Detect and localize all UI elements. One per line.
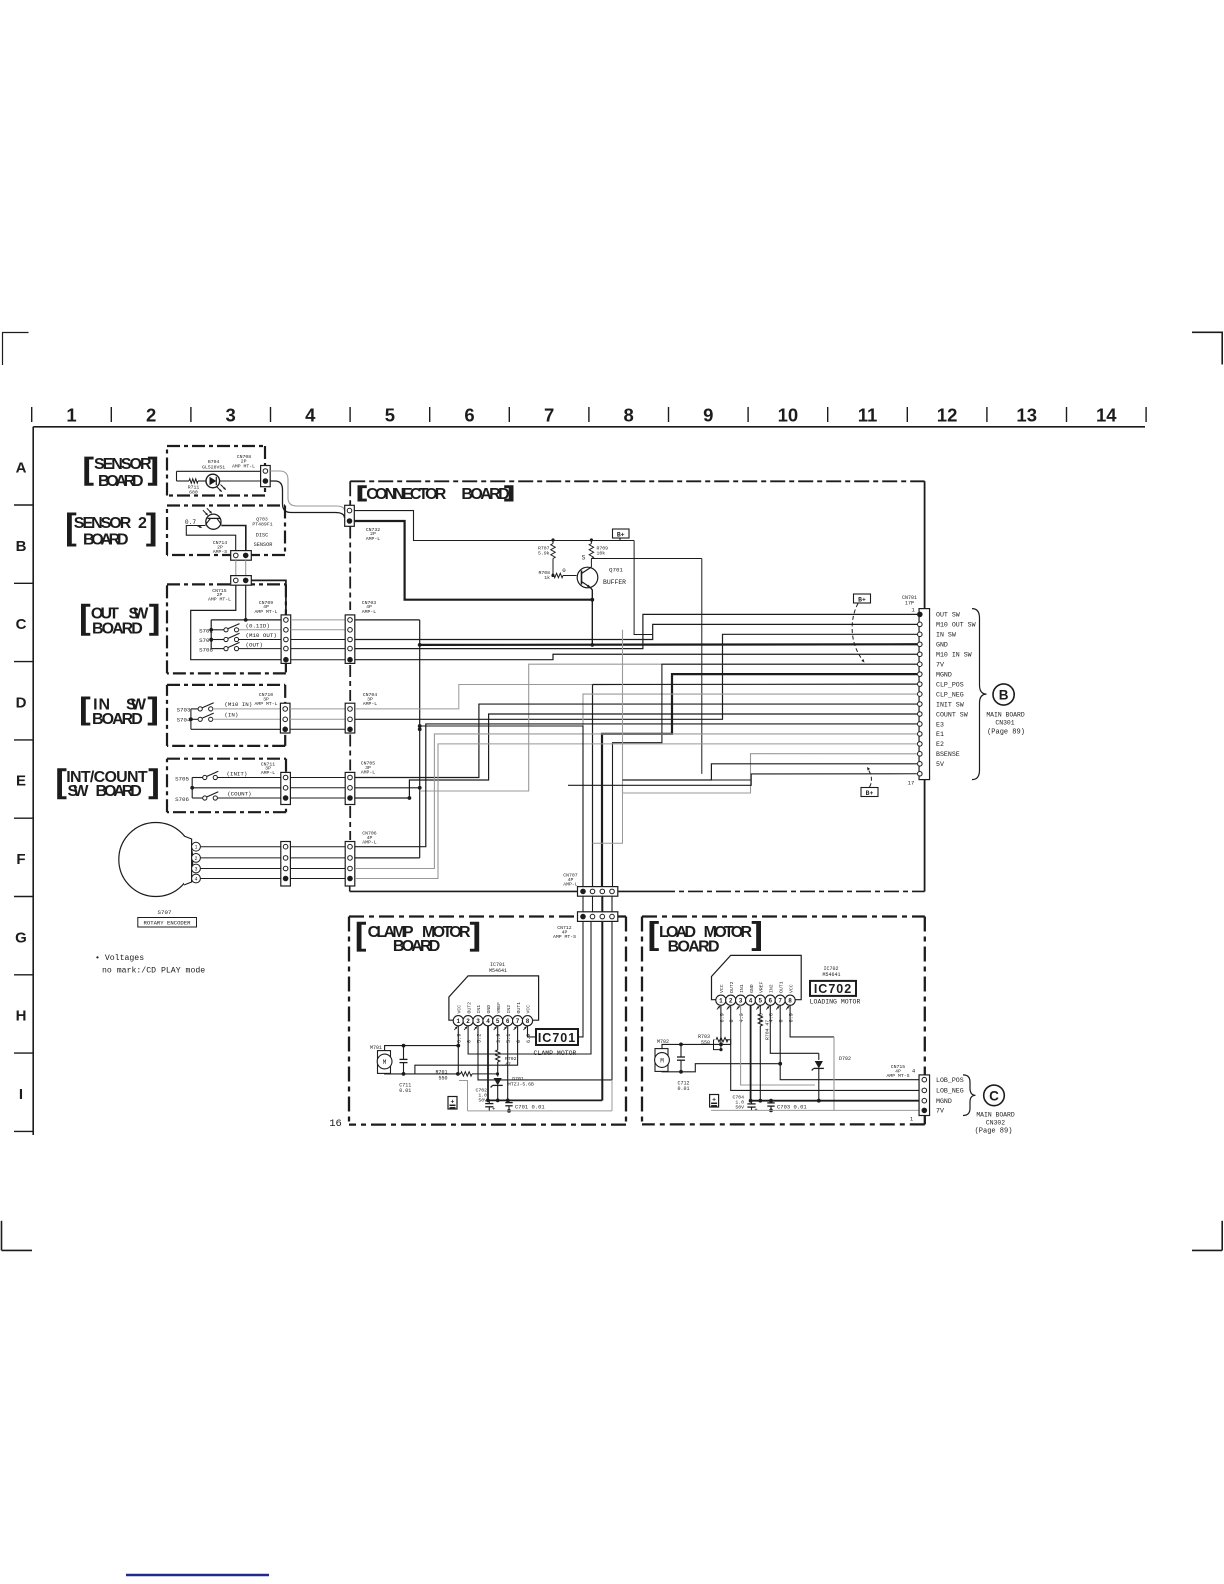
svg-text:6.9: 6.9 <box>789 1013 795 1022</box>
svg-text:2: 2 <box>729 998 733 1005</box>
svg-text:OUT SW: OUT SW <box>936 612 960 619</box>
svg-text:M: M <box>383 1059 387 1066</box>
svg-text:LOB_POS: LOB_POS <box>936 1077 964 1084</box>
svg-text:B+: B+ <box>617 531 625 538</box>
svg-text:5.2: 5.2 <box>476 1034 482 1043</box>
svg-text:C701 0.01: C701 0.01 <box>515 1103 545 1110</box>
svg-text:CLAMP MOTOR: CLAMP MOTOR <box>534 1050 577 1057</box>
IC702 pin column 8 VCC <box>790 1005 834 1037</box>
svg-text:(Page 89): (Page 89) <box>987 729 1025 737</box>
wires CN709 to CN703 <box>291 619 345 621</box>
board box SENSOR 2 BOARD <box>167 504 285 506</box>
rotary encoder S707 <box>119 823 193 897</box>
svg-text:VREF: VREF <box>496 1002 502 1014</box>
svg-text:5.1: 5.1 <box>506 1034 512 1043</box>
svg-text:IN2: IN2 <box>769 984 775 993</box>
resistor R711 680 <box>189 479 198 483</box>
svg-text:5V: 5V <box>936 761 944 768</box>
svg-text:AMP-L: AMP-L <box>563 881 578 887</box>
svg-text:680: 680 <box>189 489 198 495</box>
svg-text:IN1: IN1 <box>476 1005 482 1014</box>
svg-text:4: 4 <box>912 1068 916 1075</box>
IC702 pin column 6 IN2 <box>770 1005 819 1053</box>
svg-text:R704 47: R704 47 <box>765 1020 771 1040</box>
wire OUT SW to CN701 pin1 <box>355 614 917 648</box>
svg-text:MAIN BOARD: MAIN BOARD <box>976 1112 1015 1119</box>
svg-text:S703: S703 <box>177 706 191 713</box>
svg-text:5: 5 <box>758 998 762 1005</box>
wire M701 bottom rail <box>385 1072 458 1075</box>
svg-text:BOARD: BOARD <box>92 711 143 728</box>
wire M702 bottom rail <box>662 1064 780 1072</box>
svg-text:8: 8 <box>624 405 634 426</box>
svg-text:CN301: CN301 <box>995 720 1014 727</box>
svg-text:OUT1: OUT1 <box>516 1002 522 1014</box>
svg-text:C: C <box>16 616 27 633</box>
wire CN714 to CN715 <box>235 560 237 576</box>
svg-text:(0.1ID): (0.1ID) <box>246 622 270 629</box>
svg-text:D702: D702 <box>839 1056 851 1062</box>
svg-text:I: I <box>19 1086 23 1103</box>
svg-text:(INIT): (INIT) <box>227 771 248 778</box>
wire Q703 emitter loop <box>186 526 235 551</box>
svg-text:GL528VS1: GL528VS1 <box>202 465 225 471</box>
svg-text:LOADING MOTOR: LOADING MOTOR <box>810 999 861 1006</box>
svg-text:+: + <box>754 1106 757 1113</box>
svg-text:1: 1 <box>456 1018 460 1025</box>
svg-text:F: F <box>16 851 25 868</box>
svg-text:M: M <box>660 1058 664 1065</box>
wire Q701 emitter to GND bus <box>590 588 592 645</box>
svg-text:6: 6 <box>768 998 772 1005</box>
IC702 pins 1-8 <box>716 995 726 1005</box>
IC701 pin column 8 VCC <box>528 921 584 1037</box>
wire 7V feed to CN707 <box>613 664 918 886</box>
power symbol B+ (upper right) <box>854 594 871 603</box>
svg-text:SW: SW <box>68 783 90 800</box>
svg-text:GND: GND <box>749 984 755 993</box>
svg-text:550: 550 <box>438 1075 447 1081</box>
brace to main board C <box>963 1075 976 1116</box>
svg-text:AMP-L: AMP-L <box>366 536 381 542</box>
svg-text:IC702: IC702 <box>814 982 852 996</box>
svg-text:S701: S701 <box>199 637 213 644</box>
svg-text:MTZJ-5.6B: MTZJ-5.6B <box>508 1082 534 1088</box>
svg-text:0.01: 0.01 <box>677 1086 689 1092</box>
svg-text:10k: 10k <box>597 551 606 557</box>
wires CN710 to CN704 <box>290 708 345 710</box>
svg-text:B+: B+ <box>866 790 874 797</box>
zener diode D701 MTZJ-5.6B <box>494 1078 502 1085</box>
label SENSOR BOARD <box>84 457 93 486</box>
label CLAMP MOTOR BOARD <box>357 922 366 952</box>
wire OUT1 branch <box>415 1026 518 1074</box>
wire E2 to CN701 pin14 <box>355 744 917 879</box>
svg-text:MGND: MGND <box>936 1098 952 1105</box>
svg-text:B: B <box>999 688 1009 703</box>
clamp ground rail <box>489 1099 602 1101</box>
svg-text:17P: 17P <box>905 600 914 606</box>
capacitor C703 0.01 <box>770 1101 772 1103</box>
svg-text:AMP-L: AMP-L <box>362 609 377 615</box>
svg-text:IN2: IN2 <box>506 1005 512 1014</box>
svg-text:(Page 89): (Page 89) <box>975 1128 1013 1136</box>
wire CLP_NEG to CN701 pin9 <box>583 694 917 886</box>
wire CN712 pin4 column into clamp board <box>611 921 613 1080</box>
svg-text:BOARD: BOARD <box>92 620 143 637</box>
wire E3 to CN701 pin12 <box>355 724 917 847</box>
label INT/COUNT SW BOARD <box>57 768 66 799</box>
footer rule <box>126 1574 269 1577</box>
svg-text:no mark:/CD PLAY mode: no mark:/CD PLAY mode <box>102 966 205 976</box>
svg-text:3: 3 <box>739 998 743 1005</box>
svg-text:AMP MT-L: AMP MT-L <box>254 701 277 707</box>
svg-text:6.9: 6.9 <box>526 1034 532 1043</box>
LED inside B704 <box>206 474 220 488</box>
wire CN732 pin1 to B+ rail <box>354 511 634 541</box>
svg-text:SENSOR: SENSOR <box>254 542 273 548</box>
svg-text:S: S <box>582 555 586 562</box>
IC702 pin column 7 OUT1 <box>780 1005 918 1079</box>
wire M10 OUT SW to CN701 pin2 <box>355 624 917 639</box>
clamp lower rail <box>468 1110 613 1112</box>
svg-text:CONNECTOR: CONNECTOR <box>366 486 446 503</box>
connector encoder board 4P <box>281 842 291 887</box>
board box SENSOR BOARD <box>167 445 265 447</box>
wire CN715 pin1 loop to CN709 pin5 <box>191 585 281 660</box>
svg-text:0.01: 0.01 <box>399 1088 411 1094</box>
svg-text:AMP MT-S: AMP MT-S <box>886 1073 909 1079</box>
svg-text:50V: 50V <box>735 1104 744 1110</box>
svg-text:VCC: VCC <box>526 1005 532 1014</box>
svg-text:COUNT SW: COUNT SW <box>936 711 968 718</box>
svg-text:SENSOR: SENSOR <box>74 515 132 532</box>
svg-text:D: D <box>16 694 27 711</box>
brace to main board B <box>972 609 987 780</box>
svg-text:S702: S702 <box>199 627 213 634</box>
svg-text:CLP_POS: CLP_POS <box>936 681 964 688</box>
svg-text:LOB_NEG: LOB_NEG <box>936 1088 964 1095</box>
IC701 pin column 2 OUT2 <box>468 921 591 1054</box>
wire CN707 pin1 to GND <box>420 726 583 886</box>
svg-text:M10 OUT SW: M10 OUT SW <box>936 622 976 629</box>
wires CN711 to CN705 <box>290 777 345 779</box>
svg-text:IN1: IN1 <box>739 984 745 993</box>
svg-text:1k: 1k <box>544 575 550 581</box>
svg-text:0: 0 <box>467 1040 473 1043</box>
svg-text:IC701: IC701 <box>538 1031 576 1045</box>
svg-text:INIT SW: INIT SW <box>936 701 964 708</box>
wires encoder to connector <box>200 846 281 848</box>
svg-text:10: 10 <box>778 405 799 426</box>
label IN SW BOARD <box>81 697 90 726</box>
svg-text:5.9k: 5.9k <box>538 551 550 557</box>
svg-text:ROTARY ENCODER: ROTARY ENCODER <box>144 920 192 927</box>
svg-text:2: 2 <box>194 856 197 862</box>
svg-text:4: 4 <box>486 1018 490 1025</box>
svg-text:OUT1: OUT1 <box>778 981 784 993</box>
svg-text:BOARD: BOARD <box>83 532 129 549</box>
svg-text:E2: E2 <box>936 741 944 748</box>
IC702 pin column 3 IN1 <box>741 1005 815 1085</box>
svg-text:AMP-S: AMP-S <box>213 549 228 555</box>
wire Q703 collector <box>221 526 246 551</box>
svg-text:BUFFER: BUFFER <box>603 579 626 586</box>
svg-text:VCC: VCC <box>788 984 794 993</box>
svg-text:8: 8 <box>526 1018 530 1025</box>
svg-text:1: 1 <box>194 845 197 851</box>
svg-text:14: 14 <box>1096 405 1117 426</box>
wire 7V to CN701 pin6 <box>420 664 917 791</box>
capacitor C701 0.01 <box>508 1100 510 1102</box>
svg-text:(OUT): (OUT) <box>246 641 263 648</box>
capacitor C712 0.01 <box>680 1044 682 1057</box>
wire M702 top rail <box>662 1044 731 1048</box>
svg-text:AMP-L: AMP-L <box>361 769 376 775</box>
svg-text:0: 0 <box>516 1040 522 1043</box>
wire GND bus to CN701 pin4 <box>355 619 420 621</box>
wire B+ feed to M10 OUT riser <box>634 541 652 635</box>
svg-text:M10 IN SW: M10 IN SW <box>936 652 972 659</box>
svg-text:6.9: 6.9 <box>719 1013 725 1022</box>
svg-text:1: 1 <box>66 405 76 426</box>
wires CN707 to CN712 <box>582 896 584 912</box>
svg-text:S708: S708 <box>199 647 213 654</box>
svg-text:B+: B+ <box>858 596 866 603</box>
svg-text:AMP-L: AMP-L <box>362 839 377 845</box>
label SENSOR 2 BOARD <box>67 513 76 547</box>
board box OUT SW BOARD <box>167 583 286 585</box>
wire BSENSE to CN701 pin15 <box>623 754 918 793</box>
svg-text:0: 0 <box>562 567 566 574</box>
svg-text:AMP MT-S: AMP MT-S <box>553 934 576 940</box>
wire M701 top rail <box>385 1046 459 1051</box>
svg-text:9: 9 <box>703 405 713 426</box>
svg-text:E1: E1 <box>936 731 944 738</box>
svg-text:G: G <box>15 929 27 946</box>
label box IC701 <box>536 1029 578 1045</box>
svg-text:H: H <box>16 1008 27 1025</box>
power symbol B+ (lower right) <box>861 788 878 797</box>
label CONNECTOR BOARD <box>358 485 367 501</box>
IC702 pin column 2 OUT2 <box>731 1005 919 1090</box>
svg-text:550: 550 <box>701 1040 710 1046</box>
svg-text:2: 2 <box>146 405 156 426</box>
wire CN732 pin2 ground run <box>354 521 592 600</box>
svg-text:BOARD: BOARD <box>668 938 720 955</box>
svg-text:BOARD: BOARD <box>393 938 440 955</box>
wire out-sw common row <box>211 619 281 621</box>
IC702 pin column 4 GND <box>750 1005 752 1100</box>
svg-text:OUT2: OUT2 <box>466 1002 472 1014</box>
svg-text:3: 3 <box>476 1018 480 1025</box>
svg-text:AMP-L: AMP-L <box>363 701 378 707</box>
svg-text:GND: GND <box>936 642 948 649</box>
IC701 pins 1-8 <box>453 1016 463 1026</box>
svg-text:6.9: 6.9 <box>457 1034 463 1043</box>
wire COUNT SW to CN701 pin11 <box>355 714 917 798</box>
IC701 pin column 1 <box>457 1026 459 1074</box>
svg-text:PT489F1: PT489F1 <box>252 521 272 527</box>
svg-text:AMP-L: AMP-L <box>261 770 276 776</box>
svg-text:5: 5 <box>385 405 395 426</box>
load ground rail MGND <box>752 1100 919 1102</box>
svg-text:SENSOR: SENSOR <box>94 456 152 473</box>
svg-text:S704: S704 <box>177 717 191 724</box>
svg-text:AMP MT-L: AMP MT-L <box>208 597 231 603</box>
polarity symbol clamp <box>448 1097 457 1110</box>
IC701 pin column 4 GND <box>487 1026 489 1101</box>
svg-text:(M10 IN): (M10 IN) <box>224 701 252 708</box>
svg-text:S707: S707 <box>158 909 172 916</box>
label LOAD MOTOR BOARD <box>650 921 659 951</box>
svg-text:AMP MT-L: AMP MT-L <box>232 464 255 470</box>
svg-text:6: 6 <box>506 1018 510 1025</box>
svg-text:4: 4 <box>194 877 197 883</box>
wire INIT SW to CN701 pin10 <box>355 704 917 777</box>
polarity symbol load <box>710 1095 719 1108</box>
board box LOAD MOTOR BOARD <box>642 915 925 917</box>
wire CLP_POS to CN701 pin8 <box>355 685 593 709</box>
reference circle C MAIN BOARD CN302 <box>984 1085 1005 1106</box>
board box CLAMP MOTOR BOARD <box>349 915 578 917</box>
wire CN708 to CN732 <box>270 471 344 511</box>
svg-text:16: 16 <box>329 1118 342 1130</box>
svg-text:4: 4 <box>305 405 316 426</box>
wire IN SW to CN701 pin3 <box>355 634 917 719</box>
svg-text:• Voltages: • Voltages <box>95 953 144 963</box>
svg-text:M54641: M54641 <box>489 968 507 974</box>
svg-text:GND: GND <box>486 1005 492 1014</box>
svg-text:MAIN BOARD: MAIN BOARD <box>986 712 1025 719</box>
load 7V rail <box>711 1109 919 1111</box>
svg-text:VCC: VCC <box>719 984 725 993</box>
svg-text:C703 0.01: C703 0.01 <box>777 1104 807 1111</box>
svg-text:BOARD: BOARD <box>96 783 142 800</box>
svg-text:+: + <box>451 1098 455 1105</box>
svg-text:S706: S706 <box>175 796 189 803</box>
svg-text:E3: E3 <box>936 721 944 728</box>
svg-text:BOARD: BOARD <box>461 486 509 503</box>
wire MGND to CN701 pin7 <box>602 674 917 886</box>
wire 5V to CN701 pin16 <box>623 764 918 780</box>
svg-text:BOARD: BOARD <box>98 473 144 490</box>
svg-text:(COUNT): (COUNT) <box>227 791 251 798</box>
IC702 pin column 1 <box>720 1005 722 1049</box>
svg-text:6: 6 <box>464 405 474 426</box>
svg-text:11: 11 <box>858 405 878 426</box>
svg-text:8: 8 <box>788 998 792 1005</box>
wires encoder connector to CN706 <box>290 846 345 848</box>
svg-text:3.9: 3.9 <box>496 1034 502 1043</box>
svg-text:1: 1 <box>719 998 723 1005</box>
svg-text:4.9: 4.9 <box>739 1013 745 1022</box>
label OUT SW BOARD <box>81 604 90 636</box>
svg-text:E: E <box>16 773 26 790</box>
svg-text:1: 1 <box>911 607 915 614</box>
svg-text:R702: R702 <box>505 1056 517 1062</box>
resistor R704 47 <box>759 1005 761 1014</box>
reference circle B MAIN BOARD CN301 <box>993 684 1014 705</box>
svg-text:BSENSE: BSENSE <box>936 751 960 758</box>
svg-text:DISC: DISC <box>256 532 268 538</box>
svg-text:+: + <box>492 1106 495 1113</box>
board box IN SW BOARD <box>167 684 285 686</box>
svg-text:IN SW: IN SW <box>936 632 956 639</box>
wire CN701 pin17 <box>568 774 917 786</box>
svg-text:A: A <box>16 460 27 477</box>
wire E1 to CN701 pin13 <box>355 734 917 869</box>
capacitor C711 0.01 <box>403 1046 405 1060</box>
wire int/count common <box>192 777 203 779</box>
svg-text:50V: 50V <box>478 1097 487 1103</box>
svg-text:+: + <box>712 1096 716 1103</box>
svg-text:3: 3 <box>226 405 236 426</box>
svg-text:C: C <box>989 1089 999 1104</box>
IC701 pin column 3 IN1 <box>478 1026 612 1080</box>
transistor Q701 BUFFER <box>577 567 598 588</box>
svg-text:7: 7 <box>778 998 782 1005</box>
svg-text:2: 2 <box>138 515 147 532</box>
label box IC702 <box>810 981 856 996</box>
svg-text:CLP_NEG: CLP_NEG <box>936 691 964 698</box>
svg-text:S705: S705 <box>175 775 189 782</box>
svg-text:1: 1 <box>910 1116 914 1123</box>
svg-text:B: B <box>16 538 27 555</box>
svg-text:7: 7 <box>516 1018 520 1025</box>
svg-text:OUT2: OUT2 <box>729 981 735 993</box>
wire M10 IN SW to CN701 pin5 <box>355 654 917 659</box>
svg-text:B704: B704 <box>208 459 220 465</box>
svg-text:VREF: VREF <box>759 981 765 993</box>
svg-text:M54641: M54641 <box>822 972 840 978</box>
svg-text:CN302: CN302 <box>986 1120 1005 1127</box>
wire R709 tap to 7V column <box>591 558 701 560</box>
svg-text:2: 2 <box>466 1018 470 1025</box>
power symbol B+ (top) <box>613 529 630 538</box>
IC701 pin column 6 <box>507 1026 509 1101</box>
board box INT/COUNT SW BOARD <box>167 758 286 760</box>
resistor R702 47 <box>497 1026 499 1050</box>
svg-text:Q701: Q701 <box>609 567 623 574</box>
svg-text:VCC: VCC <box>457 1005 463 1014</box>
svg-text:7: 7 <box>544 405 554 426</box>
svg-text:AMP MT-L: AMP MT-L <box>254 609 277 615</box>
svg-text:MGND: MGND <box>936 671 952 678</box>
wire in-sw common <box>191 708 198 710</box>
svg-text:3: 3 <box>194 867 197 873</box>
svg-text:7V: 7V <box>936 1108 944 1115</box>
svg-text:0: 0 <box>729 1019 735 1022</box>
svg-text:17: 17 <box>908 780 915 787</box>
svg-text:5: 5 <box>496 1018 500 1025</box>
board box CONNECTOR BOARD <box>350 480 924 482</box>
svg-text:4: 4 <box>749 998 753 1005</box>
svg-text:D701: D701 <box>512 1076 524 1082</box>
wire CN715 pin2 to CN709 <box>251 580 286 615</box>
svg-text:(M10 OUT): (M10 OUT) <box>246 632 277 639</box>
svg-text:(IN): (IN) <box>224 712 238 719</box>
svg-text:7V: 7V <box>936 662 944 669</box>
svg-text:13: 13 <box>1016 405 1037 426</box>
svg-text:12: 12 <box>937 405 958 426</box>
svg-text:0: 0 <box>779 1019 785 1022</box>
